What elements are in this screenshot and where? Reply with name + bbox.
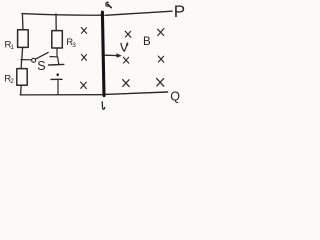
resistor R2 [17,69,27,86]
svg-text:1: 1 [10,44,14,51]
wire left side mid [20,60,22,69]
velocity arrow v [105,54,119,56]
wire junction to battery [58,57,59,64]
resistor R3 [52,31,63,48]
battery plate long [49,63,64,66]
field cross x1 (left of bar, top) [81,28,86,34]
wire R3 to switch junction [56,48,58,57]
svg-text:P: P [174,2,185,21]
wire left side upper [21,14,24,30]
wire R1 to switch node [21,47,24,59]
wire top (left loop, node to bar a) [22,14,102,16]
field cross x3 (left of bar, bottom) [81,82,87,89]
wire rail a-P (top rail) [105,11,172,15]
battery polarity dot [56,73,59,76]
wire battery to bottom [57,80,59,95]
rod ab (sliding bar) [102,12,104,95]
label v [121,43,128,51]
field cross x7 (row2 col2) [158,56,164,62]
svg-text:Q: Q [170,90,180,104]
switch S pivot [32,58,36,62]
field cross x2 (left of bar, middle) [81,54,86,60]
svg-text:B: B [143,36,151,48]
node a label [106,2,111,7]
node b label [102,102,105,109]
wire rail b-Q (bottom rail) [105,92,168,94]
switch S lever [36,52,48,59]
resistor R1 [18,30,29,48]
field cross x6 (row2 col1) [123,57,128,63]
wire bottom (left loop, node to bar b) [20,94,102,96]
wire switch stub [21,59,31,61]
field cross x9 (row3 col2) [157,78,164,86]
svg-text:3: 3 [72,42,76,49]
field cross x4 (row1 col1) [125,31,131,37]
wire switch contact [50,56,57,58]
battery plate short [51,78,62,80]
svg-text:2: 2 [10,78,14,85]
wire left side lower [20,85,23,94]
wire middle branch top [55,14,57,31]
svg-text:S: S [37,59,45,73]
field cross x8 (row3 col1) [123,80,130,87]
field cross x5 (row1 col2) [158,28,164,35]
